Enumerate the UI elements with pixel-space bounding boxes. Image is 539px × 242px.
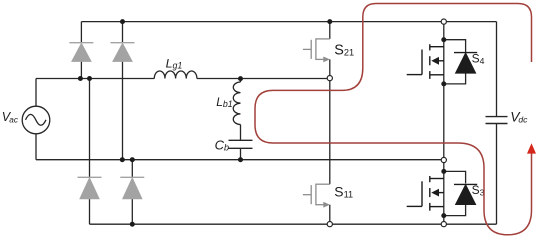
svg-text:S4: S4 [472,51,485,66]
wire D3 anode stub [89,199,91,225]
diode D4 (bridge lower-right, gray) [120,177,144,198]
wire S3 source to node [443,216,445,222]
wire S4 right bus [443,40,445,84]
wire D1 anode stub [80,61,82,78]
capacitor Cb [229,140,253,148]
wire Cb to AC line 2 [240,148,242,159]
wire AC line 2 rail [36,159,441,161]
capacitor Vdc [486,117,508,124]
wire AC line 1 rail [36,78,327,80]
source Vac [22,106,50,134]
wire S4 drain from node [443,24,445,40]
wire source bottom lead [35,134,37,160]
wire S3 drain from node [443,163,445,172]
wire node to S11 drain [329,81,331,185]
svg-text:Cb: Cb [215,137,229,152]
diode D1 (bridge upper-left, gray) [69,43,93,62]
inductor Lb1 [233,82,240,125]
svg-text:S21: S21 [334,42,354,58]
transistor S4 (black MOSFET) [407,44,444,79]
transistor S3 (black MOSFET) [407,176,444,211]
wire S4 diode loop [444,40,466,84]
wire S3 diode loop [444,171,466,215]
wire S21 source to node [329,59,331,75]
wire D2 cathode stub [122,22,124,43]
transistor S11 (gray MOSFET) [303,184,330,206]
node terminals (open circles) [327,19,446,227]
svg-text:S11: S11 [334,183,353,199]
wire top rail (DC+ bus) [81,21,496,23]
svg-text:Lb1: Lb1 [216,95,233,109]
red current path arrowhead [527,143,536,153]
wire Lb1 to Cb [240,125,242,141]
wire D1 cathode stub [80,22,82,43]
wire S11 source to node [329,205,331,222]
svg-text:S3: S3 [472,183,485,198]
wire D4 anode stub [131,199,133,225]
wire S4 source to node [443,84,445,157]
wire Vdc bottom drop [496,124,498,225]
diode S3 body diode (black) [454,184,477,204]
wire bottom rail (DC- bus) [90,223,497,225]
diode S4 body diode (black) [454,53,477,73]
wire source top lead [35,79,37,107]
inductor Lg1 [154,71,197,79]
transistor S21 (gray MOSFET) [303,38,330,60]
wire D3 cathode stub [89,79,91,178]
svg-text:Lg1: Lg1 [166,56,183,70]
svg-text:Vac: Vac [2,110,18,124]
diode D3 (bridge lower-left, gray) [78,177,102,198]
wire D4 cathode stub [131,160,133,178]
wire Vdc top drop [496,22,498,117]
red current path [255,4,532,235]
wire D2 anode stub [122,61,124,160]
wire S21 drain [329,22,331,39]
diode D2 (bridge upper-right, gray) [111,43,135,62]
wire S3 right bus [443,171,445,215]
wire Lb1 branch top [240,79,242,82]
svg-text:Vdc: Vdc [510,110,528,125]
